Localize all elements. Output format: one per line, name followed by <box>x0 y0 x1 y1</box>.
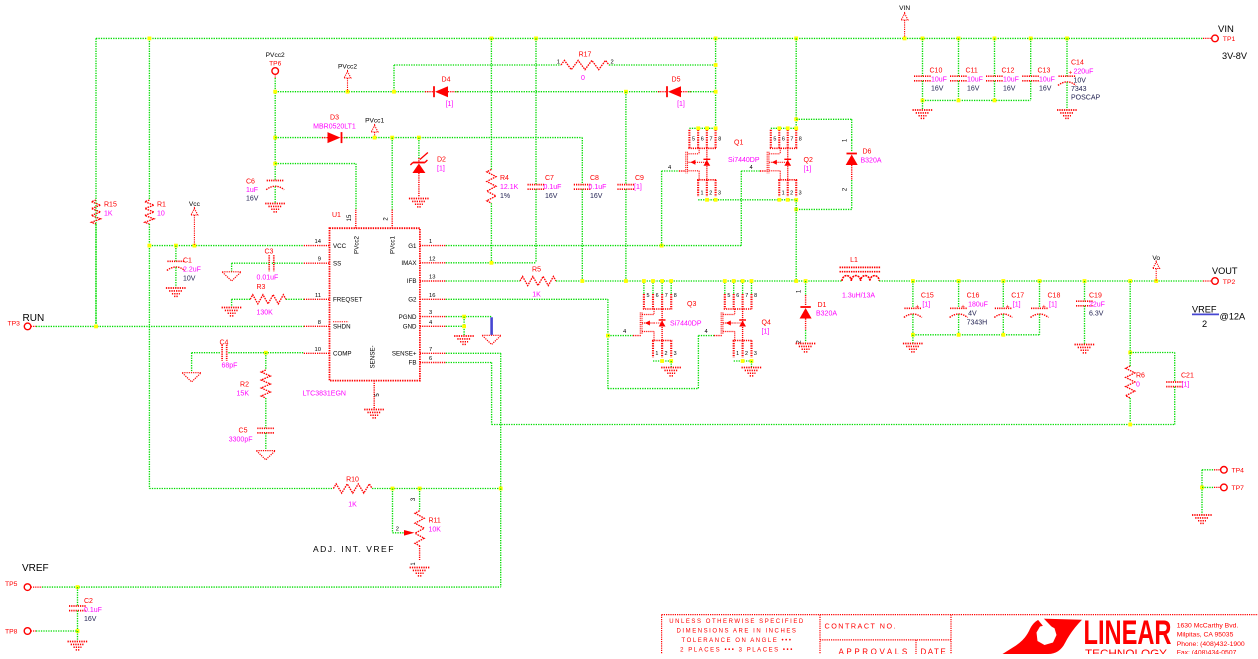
svg-text:[1]: [1] <box>1182 382 1190 389</box>
svg-text:+: + <box>961 304 965 311</box>
node junction SW D1 <box>804 279 808 283</box>
svg-text:10V: 10V <box>183 276 196 283</box>
label LTC3831EGN <box>303 391 346 398</box>
svg-text:16V: 16V <box>1003 86 1016 93</box>
svg-text:@12A: @12A <box>1220 311 1247 321</box>
pin 6 FB stub <box>420 362 446 364</box>
capacitor C8 <box>574 185 591 190</box>
label pin number 1 <box>429 239 432 245</box>
transistor Q3 <box>640 283 677 358</box>
node junction C1 <box>174 244 178 248</box>
wire C4 gnd stem <box>191 353 193 373</box>
wire Q1 gate riser <box>662 171 686 246</box>
node junction ocap bus b <box>957 333 961 337</box>
svg-text:DIMENSIONS ARE IN INCHES: DIMENSIONS ARE IN INCHES <box>677 628 798 634</box>
svg-text:2: 2 <box>709 190 712 196</box>
svg-text:11: 11 <box>315 293 321 299</box>
resistor R5 <box>520 276 556 285</box>
wire C2 top <box>77 587 79 606</box>
node junction ocap bus a <box>911 333 915 337</box>
svg-text:SENSE-: SENSE- <box>370 345 377 368</box>
wire pin15 feed <box>275 164 356 210</box>
svg-text:POSCAP: POSCAP <box>1071 95 1101 102</box>
wire Q1-Q2 source bus <box>698 199 796 201</box>
wire C17 top <box>1002 281 1004 308</box>
label R1 <box>157 202 166 218</box>
svg-text:B320A: B320A <box>816 311 837 318</box>
svg-text:7343: 7343 <box>1071 86 1087 93</box>
label C3 <box>257 249 279 282</box>
resistor R4 <box>487 169 496 203</box>
svg-text:UNLESS OTHERWISE SPECIFIED: UNLESS OTHERWISE SPECIFIED <box>669 619 805 625</box>
svg-text:TP2: TP2 <box>1223 279 1236 286</box>
power symbol VIN <box>899 5 910 38</box>
svg-text:15K: 15K <box>237 391 250 398</box>
capacitor C4 <box>222 345 227 361</box>
wire R4 bottom <box>490 203 492 263</box>
node junction rail x149 <box>148 37 152 41</box>
pin 16 G2 stub <box>420 298 446 300</box>
wire FB line <box>446 363 492 425</box>
wire C4 line <box>192 352 304 354</box>
wire VIN drop Q2 <box>795 38 797 128</box>
svg-text:3: 3 <box>674 351 677 357</box>
svg-text:12.1K: 12.1K <box>500 184 519 191</box>
resistor R3 <box>250 295 286 304</box>
svg-text:C10: C10 <box>930 68 943 75</box>
svg-text:IFB: IFB <box>407 278 417 285</box>
label R11 wiper pin <box>396 527 399 533</box>
capacitor C2 <box>69 606 86 611</box>
pin 8 SHDN stub <box>304 325 330 327</box>
wire R17 right <box>609 64 716 66</box>
resistor R2 <box>261 370 270 398</box>
label PVcc2 pin name <box>354 236 361 254</box>
diode D3 <box>322 132 348 143</box>
wire Q2 gate riser <box>741 171 767 246</box>
transistor Q2 <box>767 130 802 197</box>
wire C6 bottom <box>274 187 276 204</box>
node junction D6 branch <box>794 117 798 121</box>
wire VIN rail <box>96 37 1203 39</box>
label pin name G1 <box>408 243 417 250</box>
node junction TP8 <box>76 629 80 633</box>
node junction SW-C9 <box>624 279 628 283</box>
node junction SW Q4 742.6 <box>741 279 745 283</box>
svg-text:IMAX: IMAX <box>401 260 416 267</box>
wire C9 top <box>625 92 627 185</box>
capacitor C19 <box>1076 301 1093 306</box>
label C15 <box>921 293 934 309</box>
wire C15 top <box>912 281 914 308</box>
node junction D2 top <box>417 136 421 140</box>
pin 2 stub <box>384 210 393 229</box>
wire R11 wiper path <box>393 489 405 533</box>
node junction PVcc2 line x394 <box>392 90 396 94</box>
node junction PGND <box>462 315 466 319</box>
label R11 <box>429 518 442 534</box>
label TP4 <box>1232 468 1245 475</box>
svg-text:R11: R11 <box>429 518 441 525</box>
svg-text:6: 6 <box>429 356 432 362</box>
label TP6 <box>266 52 285 68</box>
node junction pin2 drop <box>390 136 394 140</box>
svg-text:8: 8 <box>718 136 721 142</box>
svg-text:14: 14 <box>315 239 322 245</box>
label R10 <box>346 477 359 509</box>
wire VCC line <box>149 245 303 247</box>
wire C19 bottom <box>1084 306 1086 344</box>
label D1 <box>816 302 837 318</box>
svg-text:R2: R2 <box>240 382 249 389</box>
node junction VOUT C19 <box>1083 279 1087 283</box>
svg-text:22uF: 22uF <box>1089 302 1105 309</box>
ground C5 triangle <box>256 451 275 460</box>
label R4 <box>500 175 519 200</box>
wire Q4 gate wire <box>698 335 721 337</box>
svg-text:16V: 16V <box>1039 86 1052 93</box>
svg-text:1: 1 <box>557 60 560 66</box>
svg-text:1K: 1K <box>348 502 357 509</box>
pin 5 stub <box>374 381 381 409</box>
svg-text:TP5: TP5 <box>5 581 18 588</box>
svg-text:7: 7 <box>790 136 793 142</box>
svg-text:0: 0 <box>1136 382 1140 389</box>
node junction Q1 d1 <box>696 126 700 130</box>
label C14 <box>1071 60 1101 102</box>
wire PGND-GND vert <box>463 317 465 336</box>
svg-text:10V: 10V <box>1074 78 1087 85</box>
svg-text:SS: SS <box>333 260 341 267</box>
wire R15 bottom <box>95 224 97 326</box>
node junction SENSE-R10-VREF <box>499 487 503 491</box>
svg-text:7: 7 <box>745 293 748 299</box>
label L1 <box>842 257 875 300</box>
node junction Vo arrow <box>1154 279 1158 283</box>
wire GND line <box>446 325 464 327</box>
node junction GND <box>462 324 466 328</box>
wire Q4 source bus <box>734 360 752 362</box>
label D1 pins <box>796 289 802 344</box>
wire C12 top <box>994 38 996 76</box>
capacitor C15 <box>904 304 922 318</box>
svg-text:C7: C7 <box>545 175 554 182</box>
wire C17 bottom <box>1002 314 1004 335</box>
svg-text:1K: 1K <box>532 292 541 299</box>
titleblock contract <box>825 622 898 631</box>
label C10 <box>930 68 947 93</box>
svg-text:Q4: Q4 <box>762 320 771 327</box>
resistor R10 <box>333 484 372 493</box>
pin 4 GND stub <box>420 325 446 327</box>
svg-text:0.1uF: 0.1uF <box>589 184 607 191</box>
diode D5 <box>658 86 691 97</box>
svg-text:VIN: VIN <box>899 5 910 12</box>
label C8 <box>589 175 607 200</box>
svg-text:D1: D1 <box>818 302 827 309</box>
label Q2 <box>804 157 813 173</box>
label C17 <box>1011 293 1024 309</box>
logo LINEAR text <box>1084 614 1172 652</box>
svg-text:3: 3 <box>754 351 757 357</box>
pin 13 IFB stub <box>420 280 446 282</box>
node junction SW Q4 724.8 <box>723 279 727 283</box>
label VOUT TP2 <box>1212 266 1238 286</box>
svg-text:Vcc: Vcc <box>189 201 201 208</box>
svg-text:3300pF: 3300pF <box>229 437 253 444</box>
label pin name FB <box>409 360 417 367</box>
ground blue triangle <box>482 335 501 344</box>
transistor Q1 <box>686 130 721 197</box>
svg-text:5: 5 <box>647 293 650 299</box>
svg-text:10: 10 <box>157 211 165 218</box>
wire pin2 vertical <box>391 138 393 210</box>
testpoint TP8 <box>24 628 36 635</box>
node junction SW-C8 <box>580 279 584 283</box>
wire C10-C13 bottom bus <box>923 99 1031 101</box>
wire D6 bottom branch <box>796 208 852 210</box>
svg-text:13: 13 <box>429 275 435 281</box>
wire output cap bus <box>913 334 1040 336</box>
label pin name IMAX <box>401 260 416 267</box>
svg-text:4V: 4V <box>968 311 977 318</box>
svg-text:APPROVALS: APPROVALS <box>839 648 910 655</box>
wire Q1 top bus <box>689 127 715 129</box>
svg-text:PVcc2: PVcc2 <box>338 64 357 71</box>
svg-text:VOUT: VOUT <box>1212 266 1238 276</box>
svg-text:3: 3 <box>429 310 432 316</box>
label pin number 6 <box>429 356 432 362</box>
testpoint TP2 <box>1203 278 1218 285</box>
label C9 <box>634 175 644 191</box>
wire C15 gnd stem <box>912 335 914 343</box>
node junction VOUT R6 <box>1128 279 1132 283</box>
svg-text:G2: G2 <box>408 297 417 304</box>
wire R17 left <box>394 64 561 66</box>
label pin number 8 <box>318 320 321 326</box>
wire C18 top <box>1039 281 1041 308</box>
svg-text:10uF: 10uF <box>1039 77 1055 84</box>
svg-text:12: 12 <box>429 256 435 262</box>
wire Q3 source bus <box>653 360 671 362</box>
capacitor C16 <box>950 304 968 318</box>
svg-text:PGND: PGND <box>399 314 417 321</box>
op-amp U1 box <box>330 228 420 380</box>
label pin number 16 <box>429 293 435 299</box>
node junction TP6-PVcc2 <box>273 90 277 94</box>
pin 12 IMAX stub <box>420 262 446 264</box>
node junction R11 wiper drop <box>391 487 395 491</box>
ground R3 <box>222 308 242 316</box>
node junction cap bus b <box>957 99 961 103</box>
node junction C9 top <box>624 90 628 94</box>
node junction Q1 s1 <box>705 198 709 202</box>
transistor Q4 <box>721 283 757 358</box>
svg-text:R4: R4 <box>500 175 509 182</box>
svg-text:68pF: 68pF <box>222 363 238 370</box>
svg-text:7: 7 <box>665 293 668 299</box>
svg-text:3: 3 <box>799 190 802 196</box>
svg-text:6: 6 <box>782 136 785 142</box>
capacitor C18 <box>1031 304 1049 318</box>
pin 9 SS stub <box>304 262 330 264</box>
svg-text:[1]: [1] <box>437 166 445 173</box>
ground Q4 <box>742 368 762 376</box>
svg-text:PVcc1: PVcc1 <box>390 236 397 254</box>
svg-text:C8: C8 <box>590 175 599 182</box>
wire x149 down to R10 line <box>148 246 150 489</box>
svg-text:LTC3831EGN: LTC3831EGN <box>303 391 346 398</box>
wire PVcc2 line b <box>455 91 661 93</box>
svg-text:G1: G1 <box>408 243 417 250</box>
node junction Q3 s2 <box>660 359 664 363</box>
svg-text:Vo: Vo <box>1152 255 1160 262</box>
node junction PVcc2 line x347 <box>346 90 350 94</box>
node junction TP6-pin15 <box>273 162 277 166</box>
svg-text:10K: 10K <box>429 527 442 534</box>
label VREF TP5 <box>5 563 49 588</box>
label pin number 4 <box>429 320 433 326</box>
label pin name G2 <box>408 297 417 304</box>
node junction VOUT C17 <box>1001 279 1005 283</box>
wire TP8 line <box>36 630 78 632</box>
node junction rail x796 <box>794 37 798 41</box>
label C11 <box>966 68 983 93</box>
svg-text:D2: D2 <box>437 157 446 164</box>
ground C6 <box>265 204 285 212</box>
svg-text:ADJ. INT. VREF: ADJ. INT. VREF <box>313 544 395 554</box>
label R5 <box>532 267 541 299</box>
svg-text:15: 15 <box>347 214 353 221</box>
node junction VIN arrow <box>903 37 907 41</box>
svg-text:Q1: Q1 <box>734 140 743 147</box>
wire C16 top <box>958 281 960 308</box>
svg-text:+: + <box>1006 304 1010 311</box>
svg-text:2.2uF: 2.2uF <box>183 267 201 274</box>
svg-text:C6: C6 <box>246 179 255 186</box>
power symbol PVcc2 <box>338 64 357 92</box>
node junction IMAX-R4 <box>490 261 494 265</box>
node junction x715 PVcc2 <box>714 90 718 94</box>
pin 11 FREQSET stub <box>304 298 330 300</box>
svg-text:1.3uH/13A: 1.3uH/13A <box>842 293 875 300</box>
node junction Q4 s2 <box>741 359 745 363</box>
label pin number 12 <box>429 256 435 262</box>
wire VREF line <box>42 489 501 588</box>
label R2 <box>237 382 250 398</box>
pin 1 G1 stub <box>420 245 446 247</box>
node junction Q3 s3 <box>669 359 673 363</box>
wire C10 gnd stem <box>922 100 924 109</box>
label R11 pins <box>411 497 417 566</box>
label pin name FREQSET <box>333 297 362 304</box>
svg-text:10uF: 10uF <box>931 77 947 84</box>
svg-text:0.1uF: 0.1uF <box>84 607 102 614</box>
capacitor C11 <box>950 76 967 81</box>
wire blue segment <box>490 317 493 335</box>
svg-text:C17: C17 <box>1011 293 1024 300</box>
svg-text:C9: C9 <box>635 175 644 182</box>
wire C18 bottom <box>1039 314 1041 335</box>
node junction SW Q4 751.5 <box>750 279 754 283</box>
label pin number 7 <box>429 347 432 353</box>
svg-text:SHDN: SHDN <box>333 324 351 331</box>
capacitor C17 <box>994 304 1012 318</box>
resistor R11 pot <box>404 489 424 561</box>
diode D2 zener <box>410 153 428 198</box>
wire D3 line a <box>275 137 326 139</box>
testpoint TP6 <box>272 68 279 78</box>
node junction SW Q4 733.7 <box>732 279 736 283</box>
label D6 <box>861 149 882 165</box>
svg-text:1K: 1K <box>104 211 113 218</box>
svg-text:1630 McCarthy Bvd.: 1630 McCarthy Bvd. <box>1177 623 1239 630</box>
ground C4 triangle <box>182 373 201 382</box>
svg-text:C5: C5 <box>239 428 248 435</box>
svg-text:1%: 1% <box>500 193 510 200</box>
ground C3 triangle <box>222 272 241 281</box>
svg-text:Phone: (408)432-1900: Phone: (408)432-1900 <box>1177 641 1245 648</box>
node junction G1 split <box>660 244 664 248</box>
svg-text:SENSE+: SENSE+ <box>392 351 417 358</box>
svg-text:6: 6 <box>656 293 659 299</box>
svg-text:1: 1 <box>736 351 739 357</box>
svg-text:1: 1 <box>429 239 432 245</box>
wire R1 to VCC line <box>148 224 150 246</box>
svg-text:[1]: [1] <box>677 101 685 108</box>
svg-text:0.01uF: 0.01uF <box>257 275 279 282</box>
pin 14 VCC stub <box>304 245 330 247</box>
label R17 <box>579 52 592 83</box>
capacitor C13 <box>1022 76 1039 81</box>
svg-text:7343H: 7343H <box>967 320 988 327</box>
svg-text:9: 9 <box>318 257 321 263</box>
label C19 <box>1089 293 1105 318</box>
label C7 <box>544 175 562 200</box>
label pin name SS <box>333 260 341 267</box>
svg-text:3V-8V: 3V-8V <box>1222 51 1248 61</box>
node junction RUN-R15 <box>94 325 98 329</box>
node junction rail C10 <box>921 37 925 41</box>
svg-text:C18: C18 <box>1048 293 1061 300</box>
svg-text:8: 8 <box>799 136 802 142</box>
svg-text:C1: C1 <box>183 258 192 265</box>
svg-text:Si7440DP: Si7440DP <box>670 321 702 328</box>
label pin name SENSE+ <box>392 351 417 358</box>
wire RUN line <box>36 325 304 327</box>
wire C3 left <box>232 263 270 271</box>
node junction ocap bus c <box>1001 333 1005 337</box>
node junction SW Q3 662.1 <box>660 279 664 283</box>
ground C14 <box>1057 110 1077 118</box>
node junction Q4 s3 <box>750 359 754 363</box>
label C4 <box>220 339 238 369</box>
svg-text:180uF: 180uF <box>968 302 988 309</box>
svg-text:FB: FB <box>409 360 417 367</box>
ground C2 <box>68 642 88 650</box>
node junction rail R4 <box>490 37 494 41</box>
logo LT swoosh <box>1003 618 1083 654</box>
svg-text:[1]: [1] <box>804 166 812 173</box>
svg-text:16V: 16V <box>931 86 944 93</box>
label pin number 13 <box>429 275 435 281</box>
label TP8 <box>5 629 18 636</box>
node junction rail C13 <box>1029 37 1033 41</box>
svg-text:GND: GND <box>403 324 417 331</box>
node junction TP6-D3 <box>273 136 277 140</box>
svg-text:TP4: TP4 <box>1232 468 1245 475</box>
label C6 <box>246 179 259 203</box>
